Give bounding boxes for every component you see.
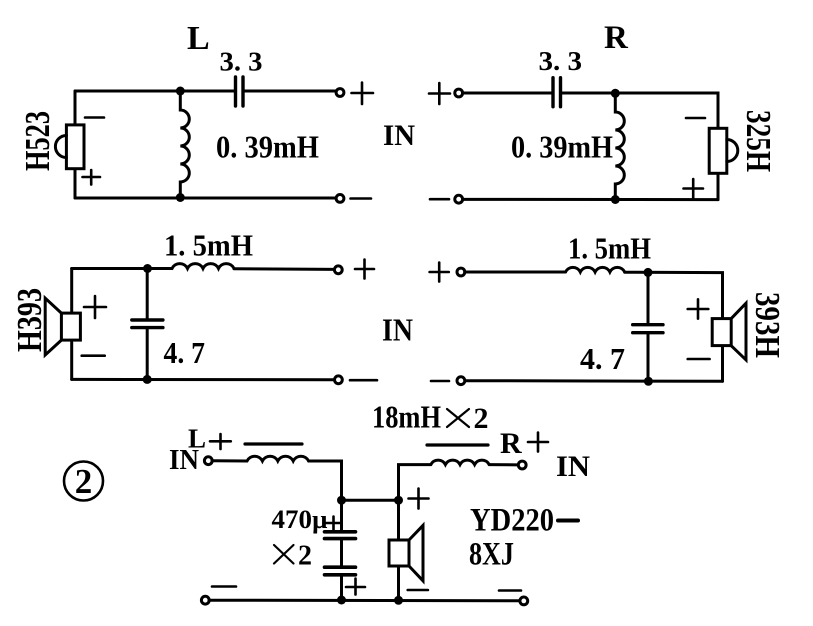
label IN (top) <box>383 119 415 152</box>
label x2 <box>274 545 294 564</box>
wire bottom rail <box>209 599 520 603</box>
node junction bottom <box>143 375 152 384</box>
svg-text:L: L <box>187 20 210 57</box>
speaker H393 woofer <box>45 298 80 355</box>
plus sign <box>430 263 449 282</box>
value label 3.3 <box>539 45 583 76</box>
svg-text:2: 2 <box>474 402 489 435</box>
wire top rail right segment <box>561 93 719 128</box>
wire speaker top <box>397 500 400 540</box>
node junction top <box>611 89 620 98</box>
svg-text:YD220: YD220 <box>470 503 554 539</box>
inductor 0.39mH shunt <box>615 93 624 199</box>
inductor core bar L <box>245 442 302 445</box>
plus sign <box>429 83 450 104</box>
svg-text:0. 39mH: 0. 39mH <box>511 129 613 165</box>
node junction bottom <box>176 193 185 202</box>
wire R input <box>489 463 518 466</box>
inductor 1.5mH series <box>172 264 234 269</box>
wire speaker vertical top <box>70 269 73 314</box>
terminal IN- <box>335 376 343 384</box>
svg-text:3. 3: 3. 3 <box>220 46 263 77</box>
plus sign <box>355 260 374 279</box>
capacitor 4.7 plates <box>132 320 163 328</box>
terminal R IN <box>518 461 526 469</box>
minus sign ground right <box>499 589 521 592</box>
node junction top <box>143 264 152 273</box>
terminal IN+ <box>457 268 465 276</box>
circled figure number 2 <box>64 462 103 502</box>
speaker H523 tweeter <box>55 125 84 169</box>
label H393 <box>748 292 787 358</box>
label 2 of 18mHx2 <box>474 402 489 435</box>
wire R branch up <box>399 465 431 501</box>
capacitor 4.7 plates <box>633 325 663 333</box>
label 18mHx2 <box>372 399 441 435</box>
speaker minus mark <box>686 117 705 120</box>
value label 4.7 <box>164 335 206 370</box>
terminal IN+ <box>334 266 342 274</box>
svg-text:2: 2 <box>298 541 312 572</box>
wire bottom rail <box>463 198 719 201</box>
minus sign <box>350 379 377 382</box>
value label 4.7 <box>580 341 625 376</box>
speaker plus mark <box>83 170 101 185</box>
label H523 <box>739 110 778 172</box>
svg-text:IN: IN <box>169 445 199 476</box>
svg-text:4. 7: 4. 7 <box>164 335 206 370</box>
plus sign <box>352 83 374 105</box>
wire L input <box>212 459 247 462</box>
terminal ground left <box>201 596 209 604</box>
value label 0.39mH <box>511 129 613 165</box>
terminal L IN <box>204 457 212 465</box>
svg-text:0. 39mH: 0. 39mH <box>216 129 319 165</box>
value label 0.39mH <box>216 129 319 165</box>
capacitor 470u lower plates <box>325 567 356 575</box>
svg-text:R: R <box>500 427 522 460</box>
plus sign R <box>528 433 548 452</box>
svg-text:3. 3: 3. 3 <box>539 45 583 76</box>
wire speaker bottom <box>397 566 400 600</box>
speaker YD220-8XJ <box>389 525 423 580</box>
inductor core bar R <box>427 443 488 446</box>
label H523 <box>18 111 57 171</box>
label 2 of x2 <box>298 541 312 572</box>
inductor 18mH L <box>247 456 309 461</box>
wire speaker vertical top <box>74 91 77 125</box>
value label 1.5mH <box>164 228 253 263</box>
terminal IN- <box>455 195 463 203</box>
speaker plus mark <box>84 296 106 318</box>
wire top rail right segment <box>625 272 723 318</box>
capacitor 470u upper wire <box>340 500 343 531</box>
label L <box>187 20 210 57</box>
label YD220- <box>470 503 554 539</box>
inductor 18mH R <box>431 460 489 464</box>
terminal IN- <box>457 377 465 385</box>
wire bottom rail <box>72 378 335 381</box>
wire bottom rail <box>465 379 723 383</box>
wire top rail left segment <box>72 267 172 270</box>
label IN (left) <box>169 445 199 476</box>
wire top rail left segment <box>463 92 553 95</box>
speaker plus mark <box>684 179 704 198</box>
node junction bottom <box>611 195 620 204</box>
label H393 <box>10 288 49 352</box>
plus sign upper cap <box>326 517 342 530</box>
node junction top <box>644 268 653 277</box>
svg-text:470µ: 470µ <box>272 505 328 534</box>
times sign of 18mHx2 <box>447 409 469 427</box>
svg-text:H393: H393 <box>10 288 49 352</box>
capacitor 4.7 shunt wire top <box>647 272 650 324</box>
terminal IN+ <box>455 89 463 97</box>
wire top rail left segment <box>75 90 235 93</box>
svg-text:4. 7: 4. 7 <box>580 341 625 376</box>
wire top rail right segment <box>243 90 336 93</box>
capacitor C 3.3 <box>553 78 561 107</box>
value label 1.5mH <box>568 231 651 266</box>
label L <box>188 424 206 454</box>
node junction L <box>337 496 346 505</box>
label 8XJ <box>469 537 514 573</box>
wire bottom rail <box>75 197 336 200</box>
speaker minus mark <box>688 358 710 361</box>
plus sign lower cap <box>346 579 365 595</box>
svg-text:8XJ: 8XJ <box>469 537 514 573</box>
inductor 1.5mH series <box>566 267 625 272</box>
wire L to junction <box>309 461 342 500</box>
node junction bottom <box>644 377 653 386</box>
wire top rail left segment <box>465 271 566 274</box>
label R <box>604 20 629 56</box>
svg-text:1. 5mH: 1. 5mH <box>164 228 253 263</box>
terminal IN- <box>336 195 344 203</box>
svg-text:2: 2 <box>75 462 93 501</box>
label R <box>500 427 522 460</box>
capacitor 470u upper plates <box>325 532 356 539</box>
svg-text:1. 5mH: 1. 5mH <box>568 231 651 266</box>
svg-text:IN: IN <box>556 450 590 483</box>
capacitor C 3.3 <box>236 77 244 106</box>
svg-text:18mH: 18mH <box>372 399 441 435</box>
wire top rail right segment <box>234 267 335 271</box>
svg-text:IN: IN <box>382 312 413 348</box>
capacitor 4.7 shunt wire top <box>146 269 149 320</box>
svg-text:H523: H523 <box>18 111 57 171</box>
minus sign ground left <box>212 585 236 588</box>
capacitor 4.7 shunt wire bottom <box>647 333 650 382</box>
dash after YD220 <box>558 519 578 523</box>
terminal ground right <box>520 597 528 605</box>
capacitor 4.7 shunt wire bottom <box>146 328 149 380</box>
node junction R <box>394 496 403 505</box>
wire junction L to R <box>342 499 399 502</box>
value label 470u <box>272 505 328 534</box>
speaker H393 woofer <box>712 303 746 360</box>
label IN (middle) <box>382 312 413 348</box>
svg-text:393H: 393H <box>748 292 787 358</box>
svg-text:IN: IN <box>383 119 415 152</box>
speaker minus mark <box>85 116 104 119</box>
speaker H523 tweeter <box>709 128 738 173</box>
plus sign near junction R <box>409 489 429 509</box>
node junction rail R <box>394 596 403 605</box>
minus sign <box>431 380 449 383</box>
speaker plus mark <box>688 299 709 318</box>
minus sign <box>430 198 449 201</box>
plus sign L <box>210 434 231 449</box>
inductor 0.39mH shunt <box>180 91 189 197</box>
capacitor 470u lower wire <box>340 575 343 600</box>
label IN (right) <box>556 450 590 483</box>
terminal IN+ <box>336 89 344 97</box>
wire speaker vertical bottom <box>70 340 73 379</box>
capacitor link wire <box>340 539 343 567</box>
svg-text:R: R <box>604 20 629 56</box>
speaker minus mark <box>82 354 105 357</box>
wire speaker vertical bottom <box>74 169 77 198</box>
minus sign <box>351 197 372 200</box>
svg-text:325H: 325H <box>739 110 778 172</box>
node junction top <box>176 87 185 96</box>
minus sign speaker <box>408 589 428 592</box>
wire speaker vertical bottom <box>721 346 724 382</box>
wire speaker vertical bottom <box>717 173 720 199</box>
node junction rail L <box>337 596 346 605</box>
value label 3.3 <box>220 46 263 77</box>
